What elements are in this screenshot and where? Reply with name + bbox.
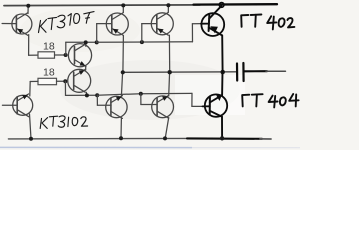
junction: loop to VT7 base branch [95, 93, 99, 97]
wire: bottom supply rail hand-drawn section [187, 137, 271, 140]
label: R2 value 18 [43, 66, 55, 78]
wire: C1 output lead [245, 70, 286, 72]
wire: VT7 collector up to output node [121, 72, 122, 96]
wire: VT1 base input stub [2, 23, 16, 25]
wire: VT7 base elbow from bias line [97, 95, 111, 105]
wire: VT5 base elbow from bias line [97, 24, 112, 43]
wire: lower bias line to VT10 base [97, 93, 204, 106]
wire: VT10 collector up to output node [221, 72, 223, 95]
transistor VT8 (driver, bottom pair right) [152, 95, 174, 118]
wire: VT9 emitter knot on top rail [219, 3, 224, 8]
wire: R1 to VT3 base node [55, 54, 66, 56]
node: R1 / VT3 base junction [64, 53, 68, 57]
transistor VT2 KT3102 (NPN, input bottom) [13, 94, 33, 117]
label: VT2 type KT3102 (handwritten) [40, 116, 87, 129]
wire: VT6 emitter to top rail [167, 5, 169, 12]
wire: VT6 base elbow from bias line [142, 24, 157, 42]
wire: VT5 emitter to top rail [122, 5, 124, 12]
wire: bottom supply rail [8, 137, 195, 140]
wire: VT1 collector down then right to R1 [29, 35, 38, 56]
wire: VT10 emitter down to bottom rail [221, 117, 223, 139]
wire: VT5 collector to output node [122, 36, 125, 73]
svg-text:18: 18 [43, 66, 55, 78]
wire: top supply rail [4, 4, 200, 7]
wire: VT6 collector to output node [168, 35, 170, 72]
junction: VT9/VT10 collectors on output node [220, 70, 225, 75]
wire: VT7 emitter to bottom rail [120, 118, 122, 139]
wire: VT2 base input stub [2, 104, 17, 106]
transistor VT1 KT3107 (PNP, input top) [12, 13, 32, 36]
node: R2 / VT4 base junction [63, 79, 67, 83]
junction: VT7 emitter on bottom rail [119, 136, 123, 140]
wire: VT8 base elbow from bias line [141, 94, 157, 105]
decorative scan line omitted from labels [0, 146, 300, 148]
resistor R1 (18) [38, 52, 55, 58]
wire: VT1 emitter to top rail [27, 6, 29, 14]
wire: VT4 base-emitter tie loop [65, 81, 97, 95]
junction: VT5/VT7 collectors on output node [121, 70, 125, 74]
junction: VT3 collector on loop [84, 40, 88, 44]
junction: VT2 emitter on bottom rail [29, 137, 33, 141]
label: VT10 type GT 404 (handwritten) [242, 94, 298, 107]
junction: VT10 emitter on bottom rail [220, 136, 224, 140]
wire: R2 left lead to VT2 collector [30, 81, 38, 96]
wire: VT3 base-collector tie loop [66, 42, 97, 55]
resistor R2 (18) [38, 78, 57, 84]
wire: top supply rail hand-drawn section [194, 3, 278, 6]
junction: VT1 emitter on top rail [26, 4, 30, 8]
transistor VT4 (diode-connected, lower bias) [68, 69, 91, 92]
junction: VT8 emitter on bottom rail [163, 136, 167, 140]
capacitor C1 right plate [242, 63, 244, 81]
junction: upper bias line to VT6 base branch [140, 40, 144, 44]
wire: output node rail [123, 71, 237, 74]
junction: VT6 emitter on top rail [166, 3, 170, 7]
transistor VT6 (driver, top pair right) [151, 12, 173, 35]
label: R1 value 18 [43, 40, 55, 52]
transistor VT7 (driver, bottom pair left) [106, 96, 127, 119]
wire: VT2 emitter to bottom rail [30, 114, 32, 139]
junction: VT6/VT8 collectors on output node [168, 70, 172, 74]
transistor VT10 GT404 (NPN output, hand-drawn) [203, 94, 228, 116]
junction: loop to VT5 base branch [95, 40, 99, 44]
label: VT1 type KT3107 (handwritten) [39, 12, 95, 33]
capacitor C1 left plate [236, 64, 238, 81]
junction: lower bias line to VT8 base branch [139, 92, 143, 96]
wire: VT8 collector up to output node [168, 72, 171, 96]
svg-text:18: 18 [43, 40, 55, 52]
wire: VT9 collector down to output node [221, 35, 223, 72]
label: VT9 type GT 402 (handwritten) [241, 15, 294, 30]
transistor VT9 GT402 (PNP output, hand-drawn) [201, 6, 224, 36]
wire: VT8 emitter to bottom rail [165, 118, 169, 139]
wire: VT3 emitter to VT4 collector [85, 66, 87, 70]
junction: VT5 emitter on top rail [121, 3, 125, 7]
transistor VT5 (driver, top pair left) [106, 13, 128, 36]
transistor VT3 (diode-connected, upper bias) [68, 44, 91, 67]
junction: VT4 emitter on loop [85, 93, 89, 97]
wire: R2 to VT4 base node [57, 80, 66, 82]
wire: upper bias line to VT9 base [97, 24, 203, 43]
